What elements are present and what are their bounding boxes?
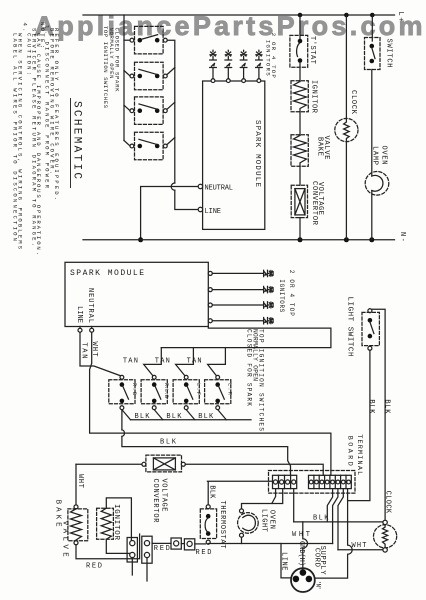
connector block CB1 bbox=[127, 538, 137, 563]
wire left bus bbox=[123, 15, 125, 141]
L+ rail bbox=[83, 14, 395, 16]
svg-text:L.F: L.F bbox=[195, 383, 201, 395]
wire tap sw4 right bbox=[167, 138, 175, 145]
svg-text:THERMOSTAT: THERMOSTAT bbox=[218, 501, 226, 549]
wire oven light top to t2 bbox=[242, 489, 283, 509]
spark module U1 box bbox=[203, 81, 265, 229]
svg-text:CLOSED FOR SPARK: CLOSED FOR SPARK bbox=[113, 28, 120, 93]
clock M2 bbox=[374, 520, 397, 552]
wire WHT from neutral pin bbox=[90, 332, 331, 475]
oven ignitor R1 bbox=[291, 81, 308, 112]
wire switch drop bbox=[371, 15, 373, 41]
wire WHT run bbox=[208, 543, 332, 546]
wire tap sw2 right bbox=[167, 68, 175, 75]
wire+electrode out3 bbox=[212, 302, 273, 308]
wire light switch feed top bbox=[370, 309, 385, 521]
ignitor electrode E4 bbox=[256, 50, 263, 78]
svg-text:IGNITOR: IGNITOR bbox=[310, 80, 318, 114]
wire light switch down bbox=[348, 350, 370, 500]
wire bus to LINE bbox=[175, 190, 198, 209]
svg-text:RED: RED bbox=[86, 563, 102, 571]
svg-text:T'STAT: T'STAT bbox=[308, 36, 316, 64]
terminal block left bbox=[273, 475, 297, 488]
wire+electrode out1 bbox=[212, 270, 273, 276]
ignition switch S4 bbox=[130, 132, 167, 160]
wire lamp-N bbox=[371, 191, 373, 240]
wire tan drop sw3 bbox=[176, 348, 194, 376]
ignitor bottom wire bbox=[106, 539, 130, 553]
ignitor electrode E1 bbox=[210, 50, 217, 78]
label 2 or 4 top ignitors upper bbox=[265, 33, 277, 79]
node clock-N bbox=[344, 237, 349, 242]
wire switch-lamp bbox=[371, 70, 373, 177]
oven lamp switch S5 bbox=[365, 38, 381, 70]
ignition switch S1 bbox=[130, 26, 167, 54]
svg-text:OVEN: OVEN bbox=[380, 146, 388, 165]
pin module top 2 bbox=[226, 79, 230, 83]
svg-text:LIGHT: LIGHT bbox=[260, 509, 268, 532]
svg-text:BLK: BLK bbox=[208, 485, 216, 499]
wire clock drop bbox=[345, 15, 347, 119]
svg-text:WHT: WHT bbox=[352, 542, 367, 550]
terminal sqA bbox=[171, 538, 181, 549]
svg-text:NEUTRAL: NEUTRAL bbox=[205, 185, 234, 193]
wire tstat-ignitor bbox=[299, 63, 301, 82]
ignitor electrode E3 bbox=[240, 50, 247, 78]
wire LINE drop bbox=[281, 544, 291, 578]
wire ignitor-bakevalve bbox=[299, 112, 301, 136]
svg-text:BLK: BLK bbox=[367, 399, 375, 414]
svg-text:LINE: LINE bbox=[205, 208, 222, 216]
svg-text:IGNITORS: IGNITORS bbox=[278, 279, 285, 312]
bake valve L2 bbox=[68, 505, 88, 545]
wire tap sw3 left bbox=[124, 105, 130, 111]
svg-text:BLK: BLK bbox=[135, 413, 151, 421]
wire sqB right bbox=[195, 543, 206, 545]
svg-text:'N': 'N' bbox=[315, 581, 322, 590]
node switch branch bbox=[370, 13, 375, 18]
svg-text:WHT: WHT bbox=[76, 474, 84, 488]
wire tap sw3 right bbox=[167, 102, 175, 109]
wire WHT2 to clock bbox=[338, 549, 383, 551]
pin U2 right 3 bbox=[208, 303, 212, 307]
svg-text:2 OR 4 TOP: 2 OR 4 TOP bbox=[288, 270, 295, 316]
note text block bbox=[12, 22, 61, 255]
voltage convertor X2 bbox=[142, 455, 185, 472]
wire thermostat riser bbox=[207, 481, 273, 505]
svg-text:CORD: CORD bbox=[312, 548, 320, 567]
svg-text:LINE: LINE bbox=[75, 306, 83, 323]
svg-text:TERMINAL: TERMINAL bbox=[355, 434, 363, 475]
svg-text:OVEN: OVEN bbox=[267, 510, 275, 529]
svg-text:WHT: WHT bbox=[90, 342, 98, 357]
top burner switch SW2 bbox=[141, 375, 167, 409]
svg-text:BLK: BLK bbox=[166, 413, 182, 421]
svg-text:L.R: L.R bbox=[227, 383, 233, 395]
svg-text:R.L.B: R.L.B bbox=[163, 383, 169, 398]
pin U2 right 2 bbox=[208, 288, 212, 292]
wire sqA-sqB bbox=[181, 543, 184, 545]
wire BLK bus bbox=[131, 419, 252, 421]
svg-text:BLK: BLK bbox=[198, 413, 214, 421]
svg-text:TAN: TAN bbox=[187, 358, 202, 366]
wire oven light bottom bbox=[241, 537, 243, 543]
voltage convertor X1 bbox=[291, 185, 307, 217]
wire line B right bbox=[185, 464, 323, 475]
wire BLK to clock bbox=[294, 521, 383, 523]
clock M1 bbox=[335, 118, 358, 141]
node lamp-N bbox=[369, 237, 374, 242]
pin U2 line bbox=[79, 327, 81, 329]
svg-text:SPARK MODULE: SPARK MODULE bbox=[70, 269, 144, 278]
svg-text:BLK: BLK bbox=[382, 399, 390, 414]
wire tstat drop bbox=[299, 15, 301, 39]
connector block CB2 bbox=[142, 536, 152, 563]
wire c6 jog WHT bbox=[333, 489, 338, 544]
svg-text:4.: 4. bbox=[22, 23, 29, 32]
N- rail bbox=[83, 239, 395, 241]
svg-text:CAN CAUSE IMPROPER AND DANGERO: CAN CAUSE IMPROPER AND DANGEROUS OPERATI… bbox=[35, 33, 42, 255]
svg-text:TAN: TAN bbox=[123, 358, 138, 366]
svg-text:R.B: R.B bbox=[131, 383, 137, 395]
pin neutral bbox=[198, 184, 202, 188]
wire CB1 down bbox=[131, 558, 133, 575]
svg-text:BLK: BLK bbox=[160, 439, 177, 447]
thermostat T'STAT bbox=[290, 35, 308, 67]
wire neutral run bbox=[141, 187, 198, 240]
wire hop over neutral bbox=[171, 183, 175, 190]
wire right bus top bbox=[167, 40, 175, 183]
node conv-N bbox=[298, 237, 303, 242]
svg-text:WHT: WHT bbox=[292, 531, 310, 539]
svg-text:L+: L+ bbox=[396, 12, 404, 22]
svg-text:CLOCK: CLOCK bbox=[349, 90, 357, 115]
ignitor electrode E2 bbox=[225, 50, 232, 78]
light switch S6 bbox=[362, 309, 379, 351]
pin module top 4 bbox=[257, 79, 261, 83]
wire tap sw1 left bbox=[124, 39, 130, 41]
wire blk sw1 bbox=[122, 410, 131, 420]
svg-text:CONVERTOR: CONVERTOR bbox=[151, 479, 159, 524]
svg-text:SWITCH: SWITCH bbox=[385, 39, 393, 68]
wire tap sw2 left bbox=[124, 71, 130, 77]
svg-text:TAN: TAN bbox=[79, 342, 87, 358]
svg-text:SPARK MODULE: SPARK MODULE bbox=[253, 120, 261, 187]
wire tan drop sw4 bbox=[208, 348, 226, 376]
node clock branch bbox=[344, 13, 349, 18]
top burner switch SW3 bbox=[173, 375, 199, 409]
top burner switch SW1 bbox=[109, 375, 135, 409]
label 2 or 4 top ignitors lower bbox=[278, 270, 295, 316]
top burner switch SW4 bbox=[205, 375, 231, 409]
wire tan drop sw2 bbox=[144, 348, 162, 376]
wire CB2-sqA bbox=[152, 542, 171, 544]
pin module top 1 bbox=[211, 79, 215, 83]
terminal board TB1 dashed bbox=[269, 471, 356, 494]
wire c7 jog WHT2 bbox=[338, 489, 343, 550]
wire bakevalve-conv bbox=[299, 166, 301, 185]
thermostat S7 bbox=[200, 505, 216, 544]
svg-text:CONVERTOR: CONVERTOR bbox=[310, 181, 318, 226]
svg-text:CLOCK: CLOCK bbox=[383, 491, 391, 514]
pin U2 right 4 bbox=[208, 319, 212, 323]
wire t4 to BLK bbox=[293, 489, 295, 522]
wire RED from bake valve bbox=[76, 534, 140, 559]
pin module top 3 bbox=[242, 79, 246, 83]
svg-text:LINE: LINE bbox=[280, 552, 288, 571]
svg-text:IGNITORS: IGNITORS bbox=[265, 40, 272, 77]
svg-text:CLOSED FOR SPARK: CLOSED FOR SPARK bbox=[245, 329, 252, 406]
ignition switch S3 bbox=[130, 97, 167, 125]
svg-text:VOLTAGE: VOLTAGE bbox=[160, 479, 168, 512]
svg-text:LAMP: LAMP bbox=[371, 146, 379, 165]
svg-text:TAN: TAN bbox=[155, 358, 170, 366]
wire+electrode out2 bbox=[212, 286, 273, 292]
node neutral-N rail bbox=[138, 237, 143, 242]
oven lamp DS1 bbox=[365, 172, 389, 196]
svg-text:REFER ONLY TO FEATURES EQUIPPE: REFER ONLY TO FEATURES EQUIPPED. bbox=[53, 28, 60, 200]
svg-text:LIGHT SWITCH: LIGHT SWITCH bbox=[345, 297, 353, 357]
wire sw1 blk to terminal board bbox=[122, 410, 291, 476]
wire+electrode out4 bbox=[212, 318, 273, 324]
svg-text:SCHEMATIC: SCHEMATIC bbox=[71, 101, 83, 179]
svg-text:NEUTRAL: NEUTRAL bbox=[86, 288, 94, 323]
bake valve L1 bbox=[291, 135, 308, 167]
wire tap sw4 left bbox=[124, 141, 130, 147]
svg-text:IGNITOR: IGNITOR bbox=[112, 504, 120, 540]
wire blk sw3 bbox=[186, 410, 195, 420]
svg-text:RED: RED bbox=[196, 549, 212, 557]
pin U2 right 1 bbox=[208, 271, 212, 275]
pin line bbox=[198, 207, 202, 211]
wire clock-N bbox=[345, 142, 347, 240]
wire conv-N bbox=[299, 218, 301, 240]
svg-text:GND(H): GND(H) bbox=[297, 541, 305, 566]
wire t1 jog bbox=[272, 489, 276, 504]
label top ignition switches lower bbox=[245, 329, 264, 431]
supply cord plug P1 bbox=[291, 568, 315, 592]
pin U2 neutral bbox=[91, 327, 93, 329]
svg-text:N-: N- bbox=[398, 232, 406, 242]
wire blk sw2 bbox=[154, 410, 163, 420]
wire CB2 down bbox=[146, 558, 148, 581]
svg-text:RED: RED bbox=[154, 545, 170, 553]
wire c8 to plug bbox=[315, 489, 352, 578]
ignition switch S2 bbox=[130, 62, 167, 89]
wire GND drop bbox=[303, 522, 308, 569]
svg-text:BLK: BLK bbox=[313, 515, 329, 523]
terminal sqB bbox=[184, 539, 194, 550]
label top ignition switches bbox=[102, 26, 120, 109]
wire TAN staircase feed bbox=[161, 327, 331, 348]
ignitor top wire bbox=[106, 498, 131, 541]
spark module U2 box bbox=[65, 262, 208, 326]
svg-text:VALVE: VALVE bbox=[322, 136, 330, 160]
oven light DS2 bbox=[238, 509, 259, 537]
wire line B left bbox=[76, 463, 142, 465]
wire TAN from line pin bbox=[80, 332, 121, 376]
wire hop sw1 over WHT bbox=[122, 430, 125, 437]
terminal block right bbox=[309, 475, 352, 488]
wire c5 jog bbox=[327, 489, 332, 522]
node T'STAT branch bbox=[298, 13, 303, 18]
svg-text:BOARD: BOARD bbox=[345, 436, 353, 466]
broil ignitor R2 bbox=[97, 508, 114, 539]
wire WHT bake valve drop bbox=[75, 464, 77, 505]
wire blk sw4 bbox=[218, 410, 227, 420]
